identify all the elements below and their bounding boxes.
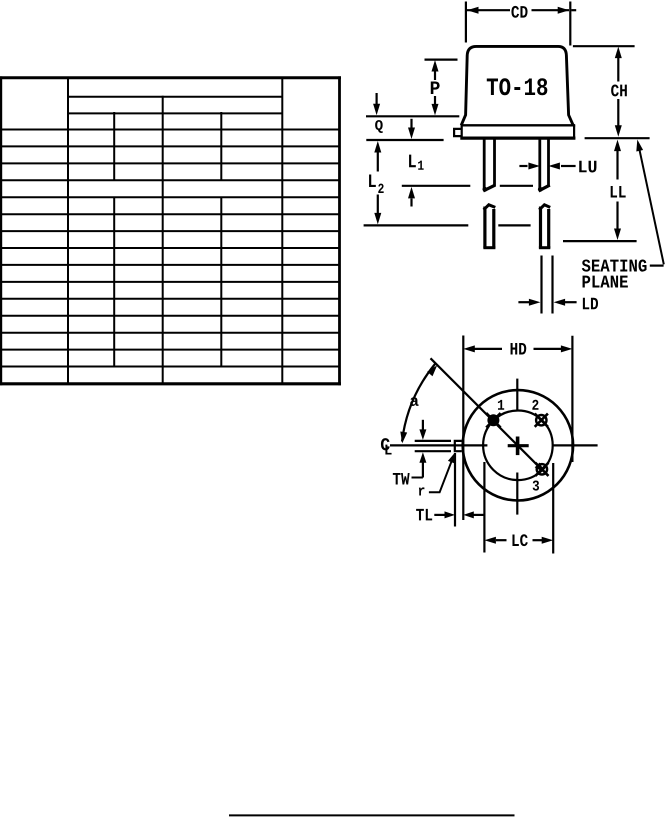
dimension LU (lead diameter near seating plane) bbox=[519, 161, 596, 173]
tab width extension lines bbox=[415, 441, 451, 451]
reference line at cap bottom (P/Q datum) bbox=[366, 115, 459, 117]
lead 2 upper segment bbox=[538, 140, 550, 192]
dimension TL (tab length) bbox=[434, 511, 485, 518]
label TL bbox=[416, 509, 432, 521]
label Q bbox=[375, 120, 383, 133]
dimension CD (can diameter) with extension lines bbox=[466, 2, 576, 46]
horizontal centerline (long-short-long) bbox=[390, 444, 598, 447]
dimension CH (can height) top reference line bbox=[573, 45, 635, 47]
pin 1 (filled, true position cross) bbox=[486, 413, 500, 427]
seating plane leader dash bbox=[650, 265, 664, 267]
pin 2 number bbox=[532, 400, 538, 410]
index tab on flange (side view) bbox=[454, 129, 462, 136]
footnote separator line bbox=[229, 814, 515, 816]
lead 1 lower segment bbox=[483, 205, 495, 249]
pin 3 number bbox=[533, 480, 539, 490]
seating plane leader (diagonal with arrow) bbox=[636, 140, 664, 265]
dimension LC (lead circle diameter) bbox=[484, 534, 553, 546]
dimension L1 bottom arrow bbox=[408, 187, 415, 207]
TO-18 can body outline bbox=[461, 46, 573, 125]
dimension HD extension lines bbox=[463, 336, 572, 521]
pin 3 (open circle, true position cross) bbox=[535, 463, 548, 476]
pin 1 number bbox=[498, 400, 504, 410]
dimension P (cap height above flange) bbox=[425, 60, 458, 116]
label L2 bbox=[369, 174, 384, 193]
pin 2 (open circle, true position cross) bbox=[535, 414, 548, 427]
dimension L2 (seating plane to lead break) bbox=[374, 141, 381, 224]
L2 lower reference line (lead break level) bbox=[364, 224, 531, 226]
index tab (bottom view) bbox=[455, 441, 462, 451]
seating plane datum line (left) bbox=[366, 139, 443, 141]
label a (alpha) bbox=[410, 397, 418, 406]
label L1 bbox=[409, 155, 424, 170]
dimension L1 top arrow (points to seating plane line) bbox=[408, 119, 415, 139]
lead 2 lower segment bbox=[539, 205, 550, 249]
bottom view inner circle (lead circle) bbox=[483, 411, 553, 481]
bottom view outer circle (can rim) bbox=[463, 390, 573, 500]
seating plane line (right) bbox=[585, 137, 650, 139]
dimension LC extension lines bbox=[484, 462, 553, 554]
r leader (tab corner radius) bbox=[419, 453, 455, 496]
dimension LL (lead length) bbox=[611, 140, 626, 240]
dimension CH bbox=[611, 47, 627, 137]
text SEATING PLANE bbox=[582, 259, 647, 287]
alpha angle arc bbox=[400, 364, 437, 443]
label TW bbox=[393, 473, 410, 485]
dimension LD (lead diameter) bbox=[518, 298, 598, 310]
centerline symbol CL bbox=[381, 438, 392, 454]
lead 1 upper segment bbox=[483, 140, 496, 192]
alpha index line through pins 1 and 3 bbox=[431, 358, 546, 473]
table: dimension table grid (empty) bbox=[0, 76, 341, 385]
can flange (base) bbox=[460, 125, 575, 139]
LL bottom reference line bbox=[563, 240, 637, 242]
dimension Q upper arrow bbox=[373, 93, 380, 115]
dimension HD (header diameter) bbox=[463, 343, 572, 355]
lead 2 continuation for LD measurement bbox=[542, 256, 553, 314]
dimension TW (tab width) arrows bbox=[412, 420, 427, 478]
TO-18 label inside can bbox=[487, 78, 548, 95]
L1 lower reference line bbox=[402, 185, 533, 187]
TL left extension line (tab edge) bbox=[454, 453, 456, 527]
vertical centerline (long-short-long) bbox=[516, 379, 518, 515]
